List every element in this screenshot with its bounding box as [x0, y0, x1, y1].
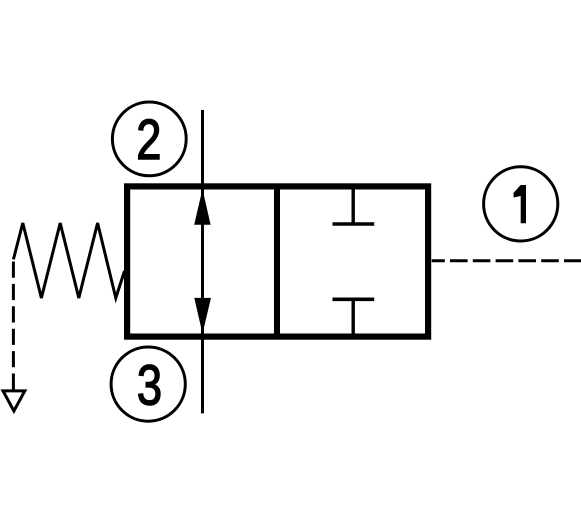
svg-text:2: 2	[136, 108, 161, 171]
closed port symbol top crossbar	[333, 222, 375, 226]
drain pilot dashed wire	[12, 262, 15, 390]
arrowhead up	[194, 189, 210, 225]
svg-text:3: 3	[137, 353, 162, 417]
closed port symbol top stem	[352, 189, 355, 225]
port label 1	[514, 185, 526, 223]
drain arrowhead open	[3, 391, 25, 411]
wire flow line 2-3	[201, 110, 204, 413]
port circle 1	[484, 167, 558, 241]
spring	[13, 223, 124, 298]
port circle 2	[112, 102, 186, 176]
envelope divider	[274, 186, 280, 337]
arrowhead down	[194, 298, 211, 334]
valve body envelope	[127, 186, 428, 336]
pilot dashed wire port 1	[432, 259, 581, 262]
closed port symbol bottom stem	[352, 299, 355, 333]
closed port symbol bottom crossbar	[333, 297, 375, 301]
port circle 3	[111, 347, 185, 421]
